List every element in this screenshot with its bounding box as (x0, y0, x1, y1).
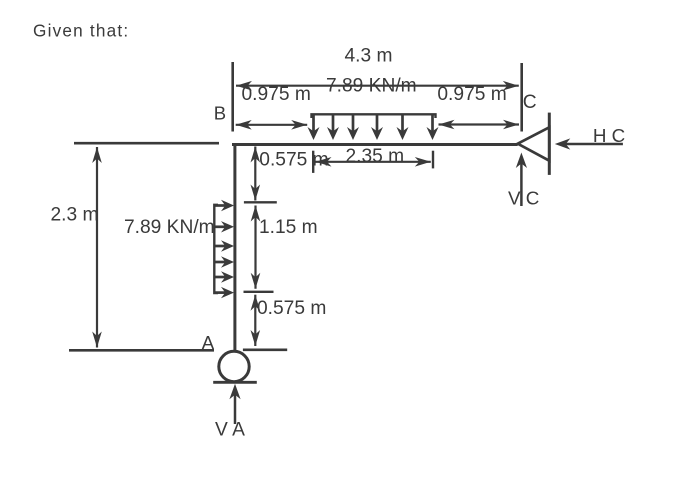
beam load arrow 5 (397, 114, 409, 140)
dimension line 1.15 m (254, 206, 256, 289)
dimension line 4.3 m (236, 85, 519, 87)
dimension line 0.575 m top (254, 147, 256, 201)
UDL top line on beam (312, 114, 436, 118)
arrowhead reaction H C (555, 138, 571, 149)
extension line at B (231, 62, 234, 132)
svg-text:0.575 m: 0.575 m (259, 150, 328, 171)
base line under circle A (213, 381, 257, 384)
dimension line 0.975 m right (439, 123, 520, 125)
svg-text:0.575 m: 0.575 m (257, 298, 326, 319)
column load arrow 3 (214, 240, 234, 251)
svg-text:2.3 m: 2.3 m (51, 205, 99, 226)
dimension line 2.3 m (96, 147, 98, 348)
arrowhead 0.975 left dim, right end (291, 120, 307, 130)
UDL line on column (214, 205, 218, 293)
reaction stem V A (234, 392, 237, 424)
top reference line left (74, 142, 219, 145)
arrowhead 4.3 m left (236, 81, 252, 91)
svg-text:7.89 KN/m: 7.89 KN/m (326, 76, 417, 97)
arrowhead 0.975 right dim, right end (503, 120, 519, 130)
tick mark upper on column (244, 201, 277, 203)
reaction stem V C (520, 161, 523, 206)
reaction stem H C (563, 143, 623, 146)
svg-text:7.89 KN/m: 7.89 KN/m (124, 217, 215, 238)
svg-text:C: C (523, 92, 537, 113)
tick mark lower on column (244, 291, 274, 293)
ground line left of A (69, 349, 214, 352)
dimension line 2.35 m (316, 161, 431, 163)
UDL arrows on column (214, 200, 234, 298)
svg-text:2.35 m: 2.35 m (346, 146, 405, 167)
svg-text:A: A (202, 332, 215, 353)
svg-text:V C: V C (508, 188, 539, 209)
arrowhead reaction V A (229, 384, 240, 400)
dimension line 0.975 m left (236, 124, 308, 126)
arrowhead 2.35 m right (415, 157, 431, 167)
column load arrow 5 (214, 271, 234, 282)
arrowhead 2.3 m top (92, 147, 102, 163)
beam load arrow 2 (327, 114, 339, 140)
arrowhead 0.575 bottom dim, down (251, 330, 261, 346)
svg-text:0.975 m: 0.975 m (242, 84, 311, 105)
arrowhead 0.975 left dim, left end (236, 120, 252, 130)
UDL arrows on beam (308, 114, 439, 140)
ground line right of A (243, 348, 287, 351)
tick right of 2.35 m (432, 151, 434, 169)
dimension line 0.575 m bottom (254, 295, 256, 346)
arrowhead reaction V C (516, 153, 527, 169)
svg-text:B: B (214, 103, 226, 124)
svg-text:4.3 m: 4.3 m (345, 46, 393, 67)
roller triangle at C (518, 127, 550, 160)
arrowhead 0.575 bottom dim, up (251, 295, 261, 311)
column AB (233, 143, 236, 352)
column load arrow 2 (214, 221, 234, 232)
beam BC (232, 143, 518, 146)
extension line at C (520, 63, 523, 132)
arrowhead 0.975 right dim, left end (439, 120, 455, 130)
column load arrow 1 (214, 200, 234, 211)
pin circle at A (219, 351, 249, 381)
arrowhead 4.3 m right (503, 81, 519, 91)
arrowhead 2.3 m bottom (92, 332, 102, 348)
beam load arrow 1 (308, 114, 320, 140)
arrowhead 0.575 top dim, down (251, 185, 261, 201)
tick left of 2.35 m (312, 151, 314, 173)
wall line at C (548, 113, 551, 175)
svg-text:1.15 m: 1.15 m (259, 217, 318, 238)
arrowhead 0.575 top dim, up (251, 147, 261, 163)
beam load arrow 6 (427, 114, 439, 140)
svg-text:Given that:: Given that: (33, 20, 129, 40)
arrowhead 1.15 dim, down (251, 273, 261, 289)
arrowhead 1.15 dim, up (251, 206, 261, 222)
svg-text:H C: H C (593, 125, 625, 146)
column load arrow 6 (214, 287, 234, 298)
svg-text:0.975 m: 0.975 m (437, 84, 506, 105)
beam load arrow 4 (371, 114, 383, 140)
svg-text:V A: V A (215, 420, 245, 441)
column load arrow 4 (214, 256, 234, 267)
arrowhead 2.35 m left (316, 157, 332, 167)
beam load arrow 3 (347, 114, 359, 140)
